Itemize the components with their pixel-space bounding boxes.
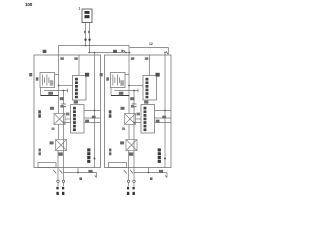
bus 2 <box>88 52 130 54</box>
bus 3 to right pack <box>130 48 169 54</box>
svg-text:12: 12 <box>149 42 153 46</box>
arrowhead + label 11 near junction <box>124 50 127 53</box>
arrowhead into right pack <box>166 51 169 54</box>
charger inner marks <box>85 11 90 14</box>
left battery pack 30 <box>29 46 100 196</box>
svg-text:100: 100 <box>25 2 33 7</box>
charger unit box <box>82 9 92 23</box>
right battery pack 50 <box>100 46 171 196</box>
bus 1 <box>59 45 130 47</box>
terminal dots <box>84 39 86 41</box>
svg-text:1: 1 <box>78 7 80 11</box>
small labels on wires <box>84 31 86 33</box>
wire A from charger <box>85 23 87 46</box>
wire B from charger <box>89 23 91 53</box>
